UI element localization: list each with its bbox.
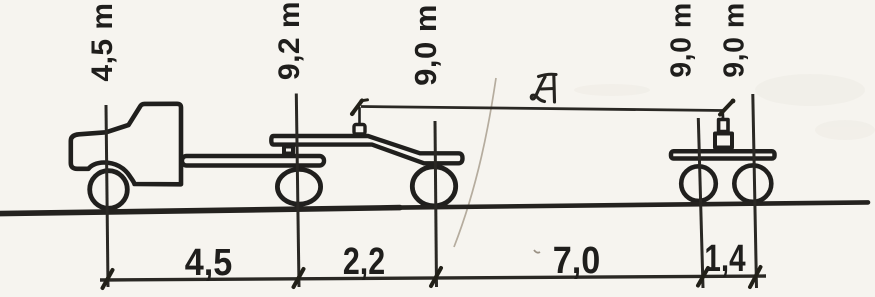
svg-text:9,0 m: 9,0 m [719, 2, 751, 77]
svg-text:9,0 m: 9,0 m [666, 2, 698, 77]
svg-text:9,2 m: 9,2 m [273, 1, 306, 80]
svg-text:4,5: 4,5 [185, 240, 233, 283]
svg-text:1,4: 1,4 [704, 238, 745, 280]
svg-text:7,0: 7,0 [553, 238, 601, 281]
svg-text:9,0 m: 9,0 m [408, 4, 443, 86]
svg-text:4,5 m: 4,5 m [86, 2, 119, 81]
svg-text:2,2: 2,2 [343, 241, 385, 283]
